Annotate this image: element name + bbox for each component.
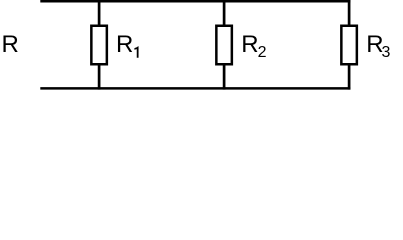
resistor R2 label: subscript 2	[258, 45, 267, 61]
wire R1 bottom lead	[98, 64, 101, 89]
resistor R1 label: R	[116, 33, 133, 57]
node R (equivalent-resistance label)	[2, 33, 19, 57]
wire R2 bottom lead	[223, 64, 226, 89]
resistor R1	[91, 26, 107, 65]
resistor R3 label: R	[366, 33, 383, 57]
resistor R3 label: subscript 3	[382, 45, 391, 61]
resistor R1 label: subscript 1	[134, 46, 140, 59]
wire R3 bottom lead	[348, 64, 351, 89]
resistor R3	[341, 26, 357, 65]
wire top rail	[40, 0, 350, 2]
resistor R2 label: R	[241, 33, 258, 57]
wire R3 top lead	[348, 0, 351, 26]
wire bottom rail	[40, 87, 350, 90]
wire R1 top lead	[98, 0, 101, 26]
wire R2 top lead	[223, 0, 226, 26]
resistor R2	[216, 26, 232, 65]
